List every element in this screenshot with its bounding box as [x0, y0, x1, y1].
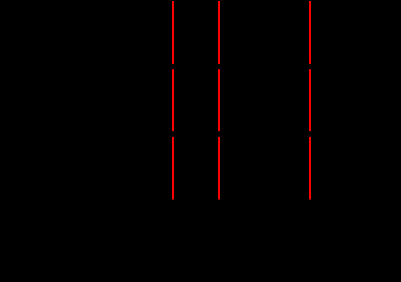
- wire column-1 lower segment: [172, 137, 174, 200]
- wire column-2 middle segment: [218, 69, 220, 131]
- wire column-2 upper segment: [218, 1, 220, 64]
- wire column-3 lower segment: [309, 137, 311, 200]
- wire column-3 middle segment: [309, 69, 311, 131]
- wire column-1 middle segment: [172, 69, 174, 131]
- wire column-2 lower segment: [218, 137, 220, 200]
- wire column-3 upper segment: [309, 1, 311, 64]
- wire column-1 upper segment: [172, 1, 174, 64]
